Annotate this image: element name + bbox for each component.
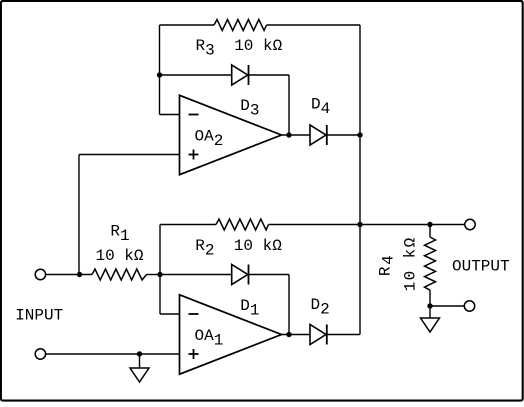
wire D3 row [160,74,232,76]
svg-text:OA: OA [195,327,215,345]
node right bus / output row [357,222,362,227]
node junction R3/D3 [157,72,162,77]
resistor R1 [92,269,147,280]
svg-text:10 kΩ: 10 kΩ [234,37,282,55]
node D4/right bus junction [357,132,362,137]
wire D1 row [160,274,232,276]
wire R4 bottom to lower output terminal [430,305,464,307]
wire D2 cathode to right bus [327,334,360,336]
svg-text:R: R [377,266,395,276]
wire R2 feedback row [160,224,216,226]
svg-text:R: R [195,237,205,255]
terminal output lower [464,301,474,311]
node ground junction [137,351,142,356]
node input / OA2 plus branch [77,272,82,277]
OA1 plus sign [189,353,199,355]
svg-text:OUTPUT: OUTPUT [452,258,510,276]
svg-text:1: 1 [120,227,130,245]
label R4 rotated [377,255,398,276]
wire OA1 output [282,334,311,336]
resistor R3 [214,20,267,31]
wire vertical OA2 plus to input node [78,155,80,275]
svg-text:10 kΩ: 10 kΩ [96,247,144,265]
wire ground stub [139,354,141,368]
svg-text:INPUT: INPUT [15,307,63,325]
node summing junction [157,272,162,277]
svg-text:R: R [110,223,120,241]
ground at OA1 input [130,368,149,382]
wire D4 cathode to right bus [327,134,360,136]
svg-text:1: 1 [214,332,224,350]
svg-text:4: 4 [321,100,331,118]
resistor R4 [429,225,431,238]
svg-text:D: D [311,296,321,314]
svg-text:4: 4 [380,255,398,265]
op-amp OA1 [180,295,282,374]
wire lower input to OA1 plus [46,353,180,355]
wire vertical D3 to OA2 output [288,75,290,135]
diode D2 [310,325,326,345]
svg-text:D: D [240,297,250,315]
svg-text:D: D [311,96,321,114]
svg-text:2: 2 [320,301,330,319]
wire vertical node to R2 row [159,225,161,315]
label R4 value 10 kOhm rotated [402,236,420,291]
svg-text:10 kΩ: 10 kΩ [402,236,420,291]
terminal input lower [35,349,45,359]
node R4 bottom junction [427,303,432,308]
wire R3 feedback top [160,24,215,26]
wire OA1 inverting input stub [160,313,180,315]
OA2 minus sign [189,114,199,116]
node R4 top junction [427,222,432,227]
wire right vertical bus [359,25,361,335]
wire output row [360,224,465,226]
svg-text:2: 2 [214,132,224,150]
wire D3 cathode to corner [249,74,290,76]
svg-text:2: 2 [205,242,215,260]
diode D3 [232,65,248,85]
wire R1 to node [147,274,161,276]
ground below R4 [421,318,440,332]
wire OA2 inverting input stub [160,114,180,116]
OA2 plus sign [189,154,199,156]
wire OA2 noninverting input stub [79,154,180,156]
wire input to R1 [46,274,92,276]
svg-text:1: 1 [250,302,260,320]
diode D4 [310,125,326,145]
wire left vertical to OA2 inverting input [159,25,161,115]
wire vertical D1 to OA1 output [288,275,290,335]
node OA1 output junction [286,332,291,337]
diode D1 [232,265,248,285]
node OA2 output junction [286,132,291,137]
svg-text:D: D [240,97,250,115]
wire ground stub below R4 [429,306,431,318]
svg-text:OA: OA [195,128,215,146]
wire OA2 output [282,134,311,136]
svg-text:3: 3 [250,102,260,120]
svg-text:3: 3 [205,42,215,60]
svg-text:10 kΩ: 10 kΩ [234,237,282,255]
resistor R2 [216,219,269,230]
terminal input upper [35,269,45,279]
op-amp OA2 [180,95,282,174]
terminal output upper [465,219,475,229]
wire D1 cathode to corner [249,274,290,276]
OA1 minus sign [189,313,199,315]
svg-text:R: R [196,37,206,55]
